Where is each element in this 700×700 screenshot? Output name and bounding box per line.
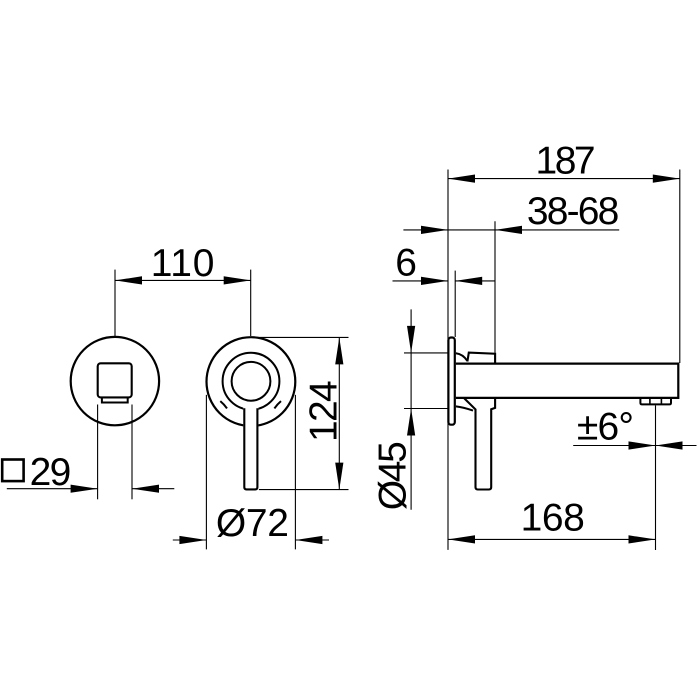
- spout center extension line: [655, 405, 657, 550]
- dim 45 extension line bottom: [404, 408, 448, 410]
- dim 72 extension line left: [205, 395, 207, 550]
- svg-text:124: 124: [303, 381, 346, 442]
- dim 72 arrow right: [295, 536, 322, 544]
- dim 6 tail right: [455, 280, 494, 282]
- dim 6 arrow left: [421, 277, 448, 285]
- handle escutcheon circle (front view): [71, 337, 159, 425]
- cartridge collar top fillet: [456, 353, 468, 361]
- dim 6deg arrow right: [656, 441, 683, 449]
- dim 187 extension line right: [679, 170, 681, 364]
- dim 110 line: [115, 279, 251, 281]
- svg-text:29: 29: [30, 451, 70, 494]
- lever ring outer circle: [223, 353, 280, 410]
- dim 45 line: [410, 309, 412, 509]
- dim 187 arrow left: [448, 175, 475, 183]
- dim 124 extension line top: [253, 336, 349, 338]
- dim 38-68 line: [448, 229, 495, 231]
- dim 6 tail left: [393, 280, 449, 282]
- handle knob bottom lip: [102, 398, 128, 402]
- dim 45 extension line top: [404, 352, 448, 354]
- cartridge collar bottom fillet: [456, 406, 473, 410]
- dim 124 arrow top: [335, 337, 343, 364]
- dim 38-68 extension line: [494, 221, 496, 353]
- dim 6deg line: [573, 445, 696, 447]
- dim 168 arrow left: [448, 535, 475, 543]
- dim 124 arrow bottom: [335, 463, 343, 490]
- lever ring top block (side view): [467, 353, 495, 363]
- svg-text:±6°: ±6°: [577, 405, 633, 448]
- dim 45 arrow top: [407, 326, 415, 353]
- dim 124 line: [338, 337, 340, 489]
- square handle knob: [98, 363, 132, 397]
- svg-text:Ø72: Ø72: [216, 502, 289, 545]
- dim 6deg arrow left: [629, 441, 656, 449]
- dim 110 arrow left: [115, 276, 142, 284]
- dim 110 extension line left: [114, 270, 116, 336]
- dim 38-68 arrow left: [421, 226, 448, 234]
- dim 72 line right segment: [295, 539, 329, 541]
- svg-text:38-68: 38-68: [527, 190, 618, 233]
- dim 72 arrow left: [179, 536, 206, 544]
- left escutcheon arc tick: [220, 401, 227, 408]
- lever handle (side view): [464, 398, 495, 489]
- svg-text:168: 168: [521, 497, 585, 540]
- dim 38-68 tail right: [495, 229, 619, 231]
- dim 124 extension line bottom: [259, 489, 349, 491]
- dim 29 line left segment: [7, 488, 98, 490]
- dim 6 extension line: [454, 271, 456, 337]
- dim 29 extension line left: [97, 405, 99, 500]
- square symbol: [2, 460, 23, 482]
- dim 187 line: [448, 178, 680, 180]
- dim 168 arrow right: [629, 535, 656, 543]
- dim 72 line left segment: [173, 539, 207, 541]
- right escutcheon arc tick: [274, 401, 281, 408]
- lever bar outline (front view): [244, 408, 257, 489]
- dim 110 extension line right: [250, 270, 252, 336]
- dim 29 extension line right: [131, 405, 133, 500]
- lever escutcheon circle (front view): [207, 337, 296, 426]
- wall face extension line: [447, 170, 449, 550]
- svg-text:187: 187: [536, 139, 594, 182]
- wall escutcheon plate (side view): [448, 338, 454, 425]
- svg-text:Ø45: Ø45: [371, 442, 414, 510]
- dim 29 arrow left: [71, 485, 98, 493]
- dim 38-68 arrow right: [495, 226, 522, 234]
- dim 187 arrow right: [653, 175, 680, 183]
- lever bar mask (front view): [243, 402, 258, 490]
- dim 29 line right segment: [132, 488, 174, 490]
- spout tube (side view): [456, 364, 678, 398]
- svg-text:110: 110: [151, 242, 216, 285]
- dim 45 arrow bottom: [407, 409, 415, 436]
- aerator (side view): [640, 398, 671, 404]
- dim 6 arrow right: [455, 277, 482, 285]
- dim 110 arrow right: [224, 276, 251, 284]
- svg-text:6: 6: [395, 242, 417, 285]
- dim 72 extension line right: [294, 395, 296, 550]
- dim 29 arrow right: [132, 485, 159, 493]
- dim 38-68 tail left: [403, 229, 448, 231]
- lever ring inner circle: [232, 362, 271, 401]
- dim 168 line: [448, 538, 656, 540]
